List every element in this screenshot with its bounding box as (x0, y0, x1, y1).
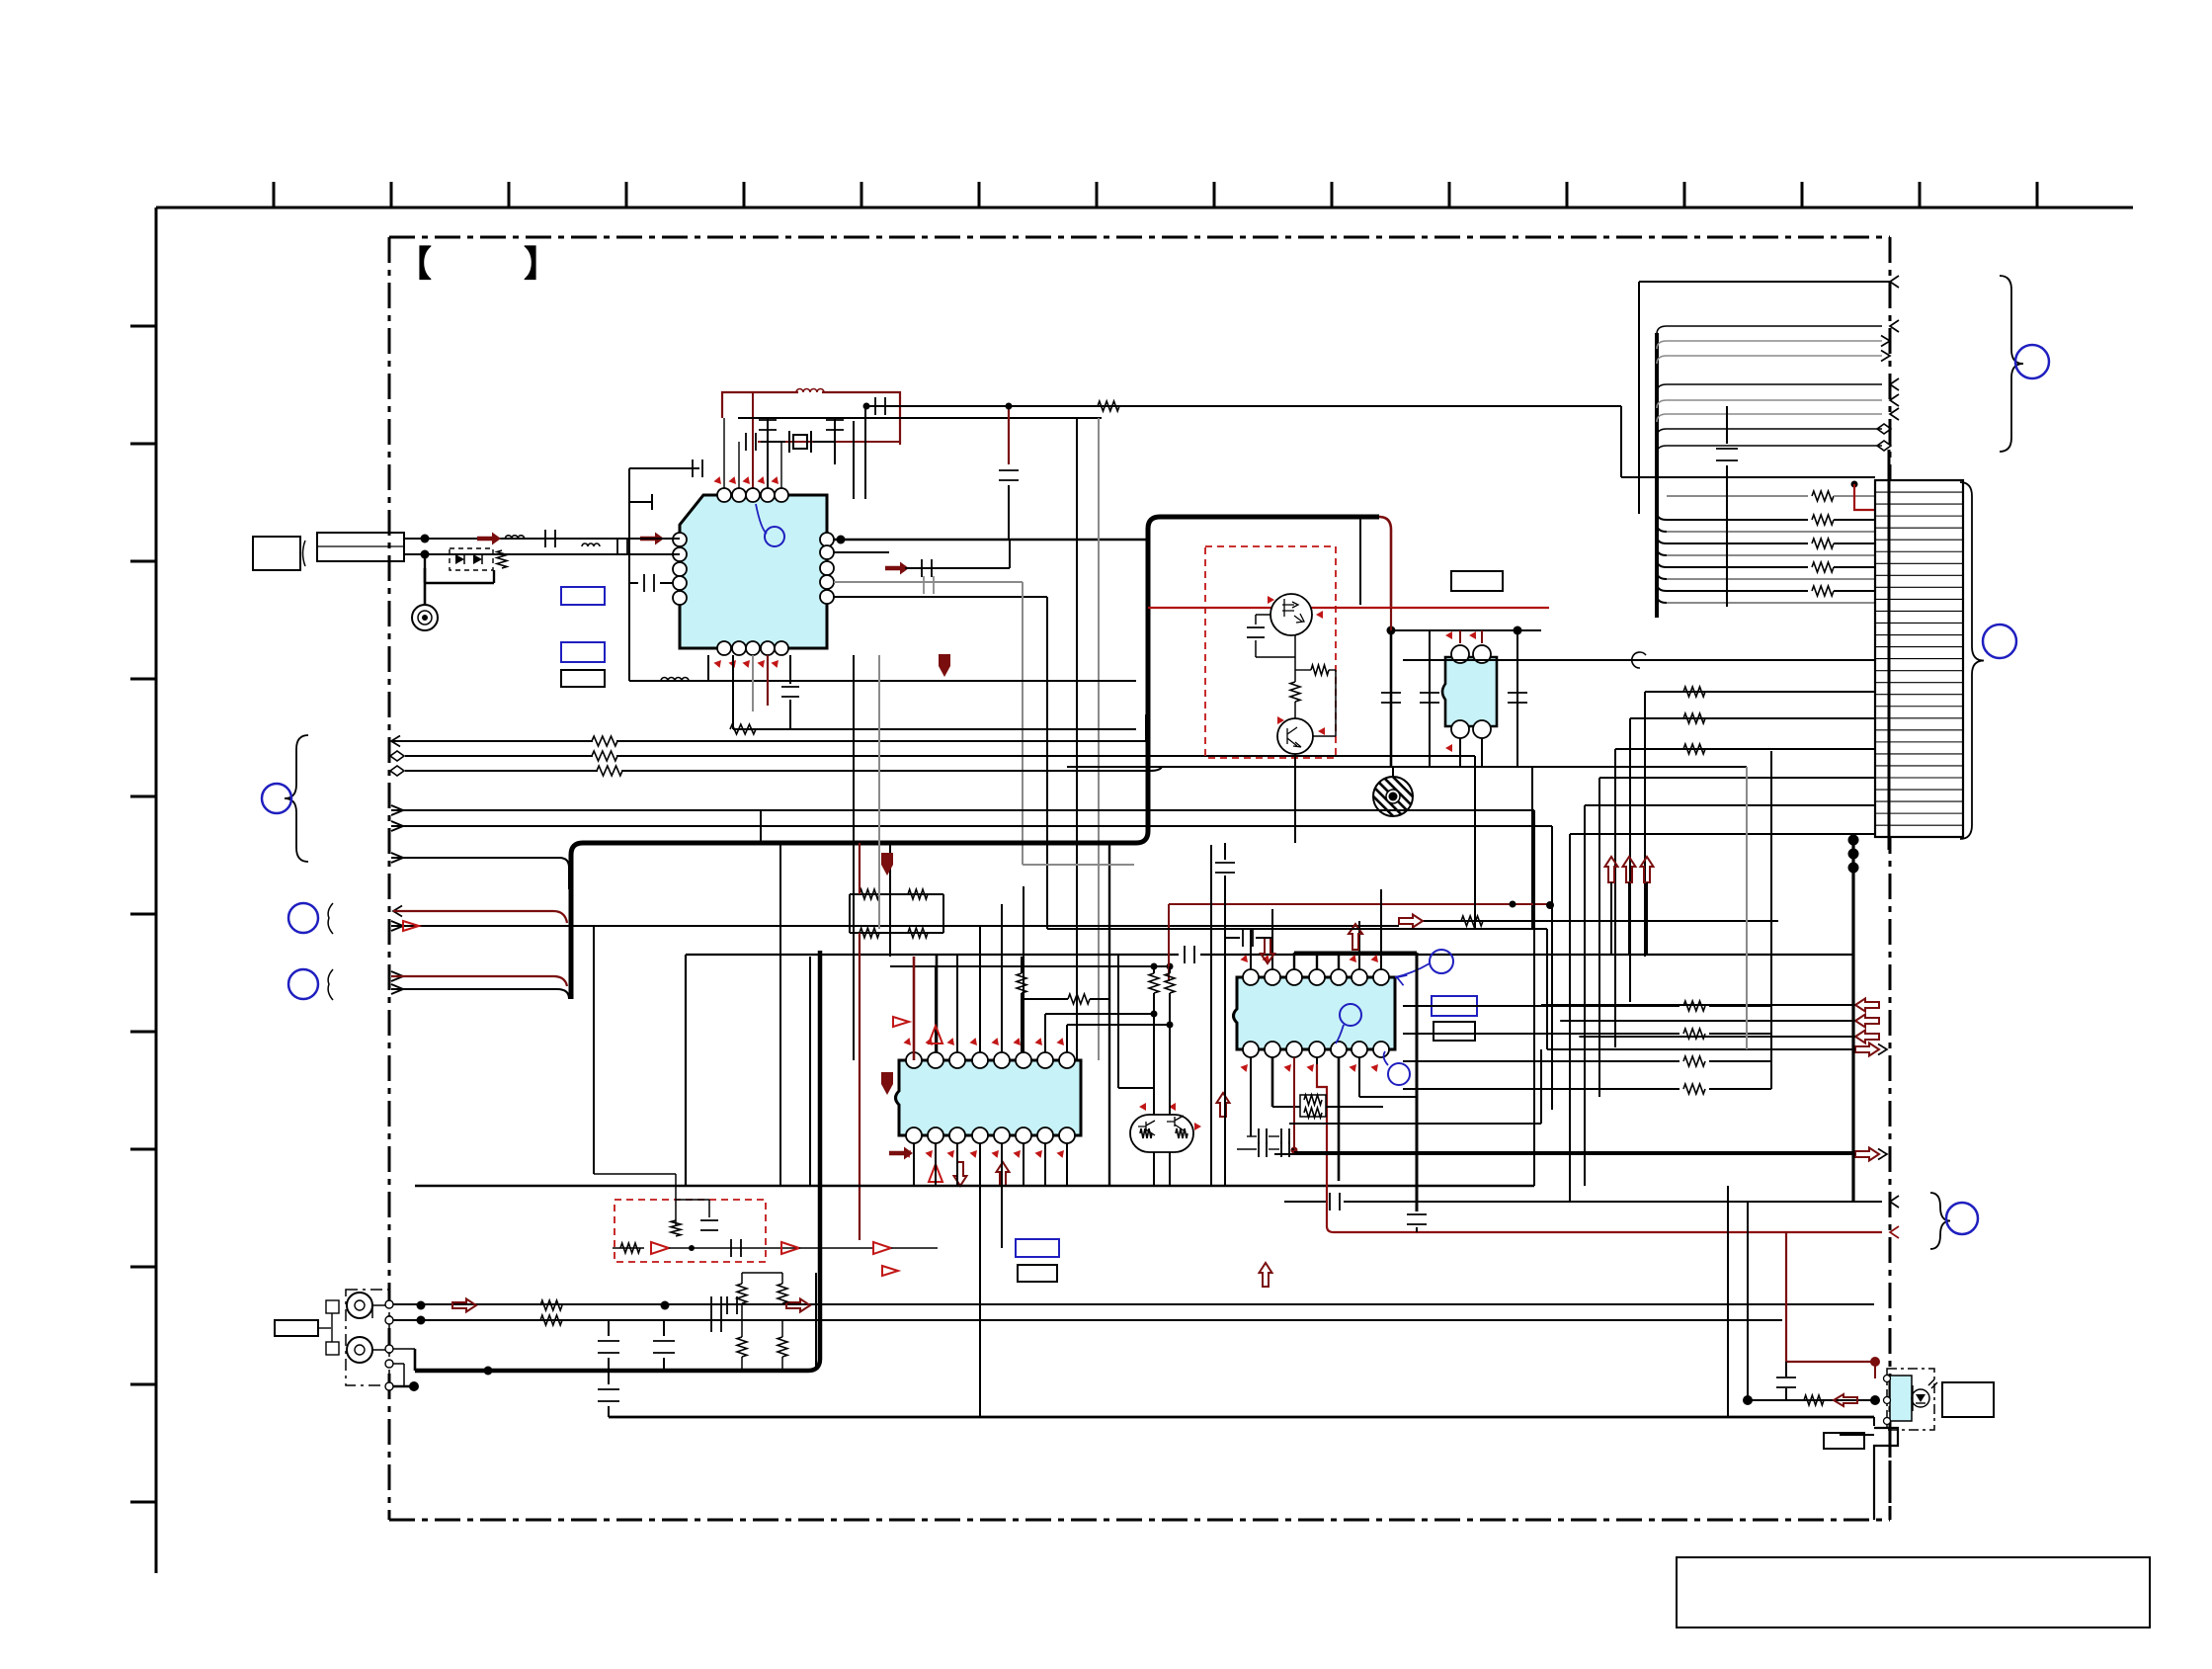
svg-text:】: 】 (524, 243, 559, 284)
svg-text:【: 【 (396, 243, 432, 284)
